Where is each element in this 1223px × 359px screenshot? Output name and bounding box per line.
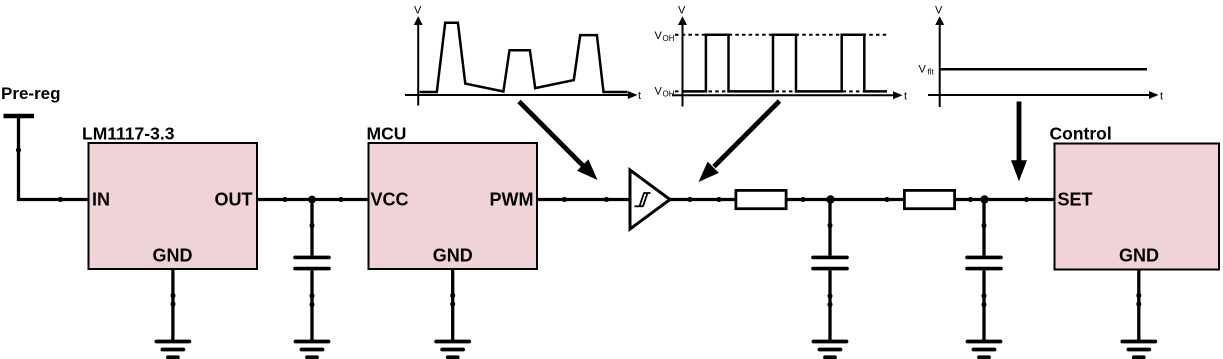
wire GND of U1 to ground [171,269,174,342]
microcontroller U2 MCU box [369,143,538,269]
svg-text:GND: GND [1119,246,1159,266]
ground under U4 [1122,342,1155,358]
wire node A to C2 [828,200,831,256]
graph 2 square wave trace [683,35,888,92]
wire waypoint ticks on horizontal wires [58,197,1030,202]
svg-text:LM1117-3.3: LM1117-3.3 [82,124,175,144]
graph 3 filtered voltage: V axis [939,24,941,107]
annotation arrow graph3 to SET wire [1017,102,1022,162]
wire GND of U4 to ground [1137,270,1140,342]
graph 1 analog waveform trace [420,23,628,92]
wire GND of U2 to ground [451,269,454,342]
svg-text:V: V [655,85,663,97]
wire C1 to ground [310,270,313,341]
controller U4 Control box [1055,144,1220,270]
svg-text:V: V [678,5,686,17]
svg-text:GND: GND [153,246,193,266]
junction node A at C2 [826,195,834,203]
annotation arrow graph2 to buffer output [714,101,780,167]
svg-text:MCU: MCU [367,124,407,144]
wire C3 to ground [982,270,985,341]
svg-text:SET: SET [1058,190,1093,210]
wire R2 to SET [956,198,1055,201]
graph 1 PWM-source waveform: V axis [417,24,419,106]
graph 2 VOL dashed level line [675,90,887,92]
wire buffer output to R1 [670,198,735,201]
wire node B to C3 [982,200,985,256]
ground under U1 [156,342,189,358]
wire OUT to VCC [257,198,369,201]
svg-text:V: V [919,63,927,75]
svg-text:V: V [935,5,943,17]
svg-text:OH: OH [663,34,675,43]
svg-text:GND: GND [433,246,473,266]
ground under C1 [296,342,329,358]
graph 3 t axis [928,94,1149,96]
svg-text:V: V [655,30,663,42]
svg-text:OH: OH [663,90,675,99]
wire Pre-reg to IN [19,116,89,200]
resistor R1 [736,190,786,208]
regulator U1 LM1117-3.3 box [89,143,258,269]
ground under U2 [436,342,469,358]
junction node B at C3 [980,195,988,203]
wire C2 to ground [828,270,831,341]
wire waypoint ticks on vertical wires [16,147,1141,307]
capacitor C3 [967,257,1001,268]
svg-text:flt: flt [928,68,935,77]
graph 2 VOH dashed level line [675,34,888,36]
svg-text:t: t [638,90,641,102]
svg-text:OUT: OUT [215,190,253,210]
wire node to C1 [310,200,313,256]
junction node at C1 [308,196,316,204]
svg-text:VCC: VCC [371,190,409,210]
svg-text:t: t [904,91,907,103]
graph 2 PWM waveform: V axis [682,24,684,107]
graph 2 t axis [672,94,893,96]
svg-text:PWM: PWM [490,190,534,210]
resistor R2 [904,190,954,208]
annotation arrow graph1 to buffer input [519,101,584,166]
schmitt-trigger buffer U3 [630,170,670,229]
capacitor C1 [295,257,329,268]
wire PWM to buffer input [537,198,630,201]
svg-text:V: V [414,5,422,17]
graph 1 t axis [405,94,629,96]
terminal Pre-reg [4,114,35,119]
ground under C2 [814,342,847,358]
hysteresis symbol of U3 [635,193,651,206]
ground under C3 [968,342,1001,358]
capacitor C2 [813,257,847,268]
svg-text:IN: IN [92,190,110,210]
graph 3 flat voltage trace [941,68,1147,71]
svg-text:Pre-reg: Pre-reg [1,84,61,103]
svg-text:t: t [1160,91,1163,103]
svg-text:Control: Control [1050,124,1112,144]
wire R1 to R2 [788,198,905,201]
